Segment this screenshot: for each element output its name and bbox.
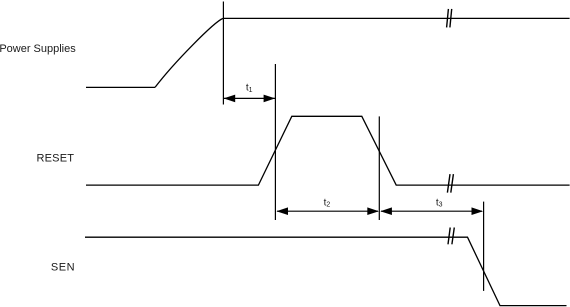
wire: power-supplies ramp-up curve: [155, 18, 223, 87]
node: reference line 4 (SEN fall 50%): [483, 202, 485, 291]
break symbol: power-supplies line: [447, 9, 452, 28]
node: reference line 2 (reset rise 50%): [274, 64, 276, 220]
break symbol: RESET line: [447, 174, 453, 193]
node: reference line 3 (reset fall 50%): [378, 116, 380, 220]
wire: SEN waveform (high, fall, low): [85, 237, 567, 305]
wire: RESET waveform (low, rise, high, fall, low): [86, 116, 570, 185]
wire: power-supplies low level: [86, 86, 155, 88]
dimension arrow t2: [276, 207, 379, 215]
wire: power-supplies high level: [223, 17, 570, 19]
svg-text:SEN: SEN: [51, 261, 75, 273]
break symbol: SEN line: [448, 228, 454, 245]
node: reference line 1 (power valid): [222, 2, 224, 105]
dimension arrow t3: [380, 207, 483, 215]
svg-text:Power Supplies: Power Supplies: [0, 43, 76, 55]
svg-text:RESET: RESET: [37, 152, 75, 164]
dimension arrow t1: [224, 95, 276, 103]
